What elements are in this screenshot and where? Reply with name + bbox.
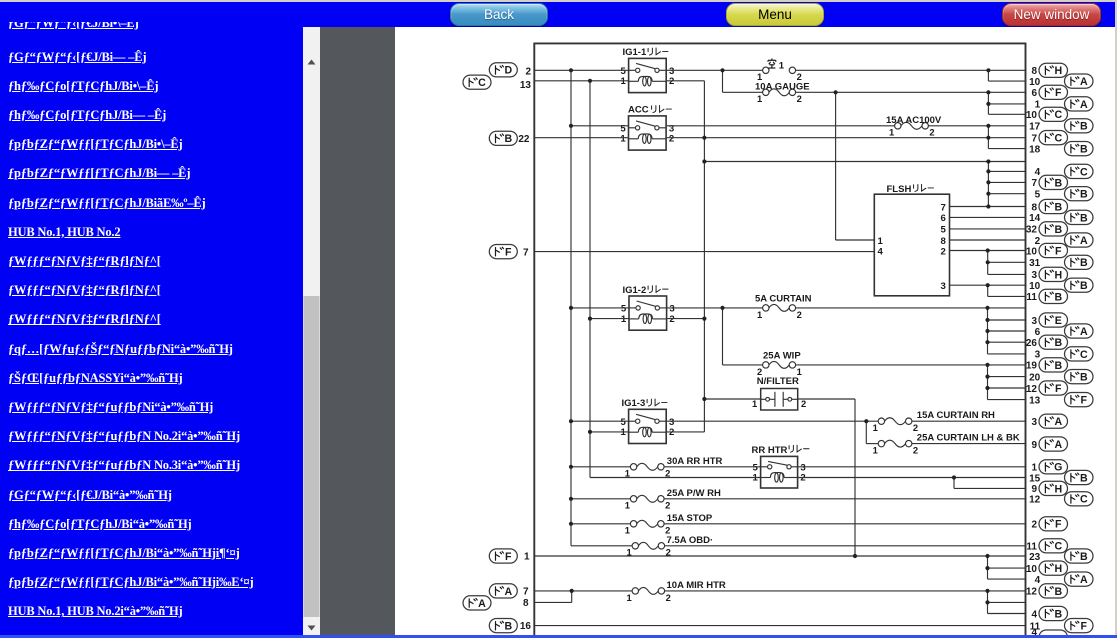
svg-text:RR HTR: RR HTR (752, 445, 788, 456)
svg-text:1: 1 (625, 525, 630, 536)
svg-text:4: 4 (1035, 575, 1041, 586)
svg-text:14: 14 (1029, 213, 1041, 224)
fuse 30A RR HTR (630, 463, 664, 470)
svg-text:2: 2 (913, 445, 918, 456)
svg-text:2: 2 (665, 500, 670, 511)
junctions (all solder dots) (569, 68, 991, 604)
wire IG1-1 pin3 to 空1 (666, 69, 762, 71)
svg-text:5A CURTAIN: 5A CURTAIN (755, 294, 812, 305)
wire FLSH pin5 to row 32 (950, 228, 1027, 230)
svg-text:2: 2 (669, 314, 674, 325)
wire mid bus row (704, 161, 1026, 163)
wire ドA8 riser (571, 591, 573, 603)
svg-text:18: 18 (1029, 144, 1041, 155)
wire IG1-2 pin1 row (590, 318, 629, 320)
svg-text:B: B (1054, 337, 1062, 349)
svg-text:6: 6 (1031, 88, 1037, 99)
fuse 5A CURTAIN (763, 304, 796, 311)
wire branch rows 10-3 (987, 251, 989, 275)
svg-text:B: B (504, 621, 512, 633)
svg-text:ACC: ACC (628, 105, 649, 116)
svg-text:13: 13 (1029, 395, 1041, 406)
wire 10A MIR HTR to row 12b (665, 590, 1027, 592)
connector ドC pin 13 (463, 75, 491, 89)
wire branch rows 8-10 (987, 70, 989, 81)
wire row 10d stub (988, 567, 1027, 569)
svg-text:B: B (1080, 144, 1088, 156)
wire row 9b stub (954, 487, 1027, 489)
svg-text:1: 1 (620, 76, 626, 87)
wire N/FILTER drop (854, 399, 856, 556)
wire FLSH pin1 riser (835, 92, 837, 240)
svg-text:F: F (1081, 621, 1088, 633)
wire ドF7 to FLSH pin4 (534, 251, 874, 253)
svg-text:1: 1 (620, 427, 626, 438)
svg-text:B: B (1080, 472, 1088, 484)
svg-text:6: 6 (940, 213, 945, 224)
wire row 31 stub (988, 261, 1027, 263)
wire 25A P/W RH to row 12 (664, 498, 1026, 500)
wire 30A RR HTR feed (571, 466, 630, 468)
relay label ACC riree (652, 106, 672, 113)
wire 30A RR HTR to RR relay pin5 (664, 466, 761, 468)
wire row 26 stub (988, 341, 1027, 343)
wire RR relay pin2 to row 15 (798, 477, 1027, 479)
svg-text:10A MIR HTR: 10A MIR HTR (667, 580, 726, 591)
svg-text:7: 7 (523, 247, 529, 258)
svg-text:2: 2 (757, 366, 762, 377)
svg-text:7: 7 (1031, 178, 1037, 189)
svg-text:32: 32 (1026, 225, 1038, 236)
wire bus V2 (coil feed) (589, 81, 591, 478)
svg-text:2: 2 (1031, 520, 1037, 531)
wire ドD2 / IG1-1 pin5 row (534, 69, 628, 71)
wire ドB16 to row 11b (534, 625, 1026, 627)
wire ACC pin2 to row 7 (667, 137, 1027, 139)
svg-text:12: 12 (1029, 495, 1041, 506)
svg-text:F: F (1055, 383, 1062, 395)
diagram frame (junction block outline) (534, 43, 1025, 638)
svg-text:B: B (1080, 551, 1088, 563)
svg-text:23: 23 (1029, 552, 1041, 563)
svg-text:F: F (1055, 87, 1062, 99)
wire branch rows 17-18 (987, 126, 989, 149)
wire row 4b stub (988, 578, 1027, 580)
wire 10A GAUGE feed (723, 91, 763, 93)
connector ドF pin 1 (489, 549, 517, 563)
relay label IG1-3 riree (647, 399, 667, 406)
svg-text:A: A (1080, 235, 1088, 247)
svg-text:C: C (1054, 133, 1062, 145)
svg-text:10: 10 (1026, 110, 1038, 121)
svg-text:8: 8 (1031, 66, 1037, 77)
svg-text:16: 16 (520, 621, 532, 632)
svg-text:2: 2 (525, 66, 531, 77)
svg-text:A: A (1080, 326, 1088, 338)
wire FLSH pin7 to row 8 (950, 206, 1027, 208)
wire row 3 stub (988, 273, 1027, 275)
wire 15A STOP to row 2 (664, 523, 1026, 525)
svg-text:2: 2 (669, 427, 674, 438)
svg-text:4: 4 (878, 247, 884, 258)
svg-text:IG1-1: IG1-1 (623, 47, 647, 58)
svg-text:2: 2 (797, 93, 802, 104)
wire IG1-3 pin3 to 15A CURTAIN RH (666, 420, 878, 422)
connector ドB pin 22 (489, 131, 517, 145)
wire row 11 stub (988, 295, 1027, 297)
svg-text:5: 5 (1035, 190, 1041, 201)
svg-text:26: 26 (1026, 338, 1038, 349)
svg-text:1: 1 (878, 236, 884, 247)
wire FLSH pin2 to row 10 (950, 250, 1027, 252)
fuse 25A P/W RH (630, 495, 664, 502)
svg-text:E: E (1055, 315, 1062, 327)
svg-text:15A AC100V: 15A AC100V (886, 115, 942, 126)
svg-text:12: 12 (1026, 384, 1038, 395)
svg-text:C: C (1054, 109, 1062, 121)
svg-text:6: 6 (1035, 327, 1041, 338)
svg-text:B: B (1080, 121, 1088, 133)
svg-text:4: 4 (1031, 609, 1037, 620)
wire row 3c stub (988, 353, 1027, 355)
svg-text:15A STOP: 15A STOP (667, 513, 713, 524)
wire IG1-2 pin2 out (667, 318, 705, 320)
fuse 15A AC100V (895, 122, 929, 129)
wire FLSH pin8 to row 2 (950, 239, 1027, 241)
svg-text:B: B (1054, 177, 1062, 189)
svg-text:1: 1 (757, 93, 762, 104)
svg-text:10A GAUGE: 10A GAUGE (755, 81, 810, 92)
svg-text:19: 19 (1026, 361, 1038, 372)
svg-text:A: A (1054, 416, 1062, 428)
wire RR relay pin1 row (590, 477, 761, 479)
svg-text:25A P/W RH: 25A P/W RH (667, 488, 721, 499)
svg-text:F: F (1055, 519, 1062, 531)
svg-text:3: 3 (1031, 417, 1037, 428)
connector ドA pin 8 (463, 596, 491, 610)
wire row 20 stub (988, 376, 1027, 378)
wire 25A WIP feed (723, 364, 763, 366)
svg-text:N/FILTER: N/FILTER (757, 376, 799, 387)
svg-text:F: F (505, 247, 512, 259)
svg-text:B: B (1080, 257, 1088, 269)
relay label IG1-1 riree (648, 48, 668, 55)
svg-text:25A WIP: 25A WIP (763, 351, 801, 362)
svg-text:C: C (1080, 494, 1088, 506)
wire row 12 stub (988, 387, 1027, 389)
svg-text:9: 9 (1031, 440, 1037, 451)
svg-text:8: 8 (523, 598, 529, 609)
svg-text:A: A (504, 586, 512, 598)
svg-text:IG1-2: IG1-2 (623, 285, 647, 296)
wire branch rows 19-13 (987, 365, 989, 400)
svg-text:9: 9 (1031, 484, 1037, 495)
connector ドA pin 7 (489, 584, 517, 598)
wire ドA7 / 10A MIR HTR feed (534, 590, 632, 592)
svg-text:IG1-3: IG1-3 (622, 398, 646, 409)
svg-text:8: 8 (1031, 202, 1037, 213)
svg-text:1: 1 (524, 552, 530, 563)
svg-text:20: 20 (1029, 372, 1041, 383)
svg-text:7: 7 (523, 587, 529, 598)
wire row 10b stub (988, 113, 1026, 115)
svg-text:B: B (504, 133, 512, 145)
fuse 7.5A OBD&#183; (632, 542, 665, 549)
fuse 25A WIP (763, 361, 796, 368)
wire IG1-2 pin5 row (571, 307, 629, 309)
svg-text:2: 2 (666, 592, 671, 603)
svg-text:H: H (1054, 563, 1062, 575)
svg-text:3: 3 (1031, 270, 1037, 281)
svg-text:10: 10 (1029, 281, 1041, 292)
svg-text:1: 1 (873, 422, 878, 433)
svg-text:FLSH: FLSH (887, 184, 912, 195)
svg-text:1: 1 (779, 60, 785, 71)
wire 15A CURTAIN RH to row 3 (912, 420, 1027, 422)
svg-text:1: 1 (1035, 100, 1041, 111)
wire IG1-2 pin3 to 5A CURTAIN (667, 307, 763, 309)
fuse 15A CURTAIN RH (878, 418, 912, 425)
connector ドD pin 2 (489, 63, 517, 77)
wire IG1-3 pin5 row (571, 420, 629, 422)
svg-text:7: 7 (940, 202, 945, 213)
svg-text:D: D (504, 65, 512, 77)
wire bus V1 (pin5 feed) (570, 70, 572, 546)
wire row 7b stub (988, 181, 1026, 183)
svg-text:7.5A OBD·: 7.5A OBD· (667, 535, 714, 546)
svg-text:1: 1 (873, 445, 878, 456)
wire RR pin2 drop (953, 478, 955, 489)
svg-text:10: 10 (1026, 564, 1038, 575)
wire 15A AC100V to row 17 (928, 125, 1026, 127)
wire 10A GAUGE to row 6 (796, 91, 1027, 93)
wire RR relay pin3 to row 1 (798, 466, 1027, 468)
wire 空1 to row 8 (796, 69, 1027, 71)
wire ドF1 to row 23 (534, 555, 1026, 557)
svg-text:H: H (1054, 483, 1062, 495)
relay RR HTR (761, 456, 798, 488)
svg-text:B: B (1054, 224, 1062, 236)
svg-text:1: 1 (889, 127, 894, 138)
wire IG1-3 pin2 out (666, 431, 704, 433)
svg-text:A: A (478, 598, 486, 610)
wire branch rows 10-11 (987, 285, 989, 296)
svg-text:H: H (1054, 65, 1062, 77)
svg-text:C: C (1080, 166, 1088, 178)
fuse 15A STOP (630, 520, 664, 527)
svg-text:1: 1 (626, 592, 631, 603)
svg-text:A: A (1080, 99, 1088, 111)
wire 25A P/W RH feed (571, 498, 630, 500)
svg-text:B: B (1054, 291, 1062, 303)
svg-text:1: 1 (625, 500, 630, 511)
wire IG1-3 pin1 row (590, 431, 629, 433)
svg-text:15A CURTAIN RH: 15A CURTAIN RH (917, 410, 995, 421)
wire FLSH pin3 to row 10c (950, 284, 1027, 286)
wire branch rows 6-10 (987, 92, 989, 114)
svg-text:B: B (1080, 372, 1088, 384)
wire row 1 stub (988, 103, 1026, 105)
svg-text:10: 10 (1029, 77, 1041, 88)
svg-text:1: 1 (1031, 463, 1037, 474)
svg-text:15: 15 (1029, 473, 1041, 484)
wire 15A STOP feed (571, 523, 630, 525)
svg-text:11: 11 (1026, 292, 1037, 303)
wire 25A CURTAIN LH to row 9 (912, 443, 1027, 445)
svg-text:5: 5 (940, 225, 946, 236)
wire branch rows 4-8 (987, 162, 989, 207)
wire ACC pin5 row (571, 125, 629, 127)
svg-text:30A RR HTR: 30A RR HTR (667, 456, 723, 467)
svg-text:1: 1 (620, 134, 626, 145)
svg-text:B: B (1080, 280, 1088, 292)
wire N/FILTER feed (704, 398, 760, 400)
wire 25A WIP to row 19 (796, 364, 1027, 366)
svg-text:10: 10 (1026, 246, 1038, 257)
svg-text:1: 1 (757, 309, 762, 320)
svg-text:3: 3 (940, 281, 945, 292)
noise filter N/FILTER (761, 389, 798, 411)
svg-text:2: 2 (940, 247, 945, 258)
wire bus V3 (pin2 chain) (703, 81, 705, 432)
scrollbar (303, 27, 320, 638)
svg-text:C: C (1080, 349, 1088, 361)
svg-text:31: 31 (1029, 258, 1041, 269)
svg-text:A: A (1054, 439, 1062, 451)
svg-text:H: H (1054, 269, 1062, 281)
wire 空1 branch (722, 70, 724, 92)
svg-text:12: 12 (1026, 587, 1038, 598)
wire FLSH pin1 in (836, 239, 875, 241)
wire branch rows 3-3 (987, 308, 989, 354)
svg-text:B: B (1054, 201, 1062, 213)
svg-text:2: 2 (669, 76, 674, 87)
svg-text:2: 2 (669, 134, 674, 145)
wire branch rows 12-4 (987, 591, 989, 614)
svg-text:B: B (1080, 212, 1088, 224)
svg-text:A: A (1080, 76, 1088, 88)
svg-text:8: 8 (940, 236, 946, 247)
wire row 3b stub (988, 319, 1027, 321)
svg-text:17: 17 (1029, 122, 1041, 133)
svg-text:A: A (1080, 574, 1088, 586)
svg-text:F: F (505, 551, 512, 563)
svg-text:B: B (1080, 189, 1088, 201)
connector ドB pin 16 (489, 619, 517, 633)
svg-text:C: C (478, 77, 486, 89)
svg-text:G: G (1054, 462, 1062, 474)
svg-text:1: 1 (621, 314, 627, 325)
wire 7.5A OBD to row 11 (665, 545, 1027, 547)
wire row 4 stub (988, 170, 1026, 172)
relay label IG1-2 riree (648, 286, 668, 293)
svg-text:13: 13 (520, 80, 532, 91)
wire 25A WIP branch (722, 308, 724, 365)
svg-text:1: 1 (752, 398, 757, 409)
svg-text:1: 1 (797, 366, 802, 377)
svg-text:2: 2 (801, 398, 806, 409)
svg-text:2: 2 (913, 422, 918, 433)
svg-text:B: B (1054, 586, 1062, 598)
wire row 10 stub (988, 80, 1026, 82)
wire CURTAIN LH drop (865, 421, 867, 443)
fuse 10A GAUGE (763, 89, 796, 96)
wire ACC pin3 to 15A AC100V (667, 125, 895, 127)
wire bottom partial stub (988, 636, 1027, 638)
svg-text:F: F (1081, 395, 1088, 407)
wire row 18 stub (988, 148, 1026, 150)
svg-text:2: 2 (929, 127, 934, 138)
wire branch rows 23-4 (987, 556, 989, 579)
svg-text:4: 4 (1035, 167, 1041, 178)
wire 7.5A OBD feed (571, 545, 632, 547)
svg-text:7: 7 (1031, 133, 1037, 144)
wire 5A CURTAIN out (796, 307, 1027, 309)
relay FLSH box (874, 194, 949, 296)
wire row 4c stub (988, 613, 1027, 615)
svg-text:B: B (1054, 608, 1062, 620)
svg-text:C: C (1054, 541, 1062, 553)
wire ドB22 / ACC pin1 row (534, 137, 628, 139)
wire N/FILTER out (798, 398, 855, 400)
svg-text:2: 2 (1035, 236, 1041, 247)
svg-text:3: 3 (1035, 350, 1041, 361)
svg-text:3: 3 (1031, 316, 1037, 327)
svg-text:22: 22 (518, 134, 530, 145)
fuse slot 空1 (empty) (763, 67, 796, 73)
wire IG1-1 pin2 out (666, 80, 704, 82)
svg-text:2: 2 (797, 309, 802, 320)
fuse 25A CURTAIN LH & BK (878, 440, 912, 447)
wire row 5 stub (988, 193, 1026, 195)
connector ドF pin 7 (489, 245, 517, 259)
wire ドA8 row (534, 601, 571, 603)
svg-text:B: B (1054, 360, 1062, 372)
wire 25A CURTAIN LH feed (866, 443, 878, 445)
wire row 13 stub (988, 399, 1027, 401)
wire unlabeled stub (988, 601, 1027, 603)
fuse 10A MIR HTR (632, 587, 665, 594)
wire FLSH pin6 to row 14 (950, 216, 1027, 218)
svg-text:25A CURTAIN LH & BK: 25A CURTAIN LH & BK (917, 433, 1020, 444)
wire row 6b stub (988, 330, 1027, 332)
svg-text:F: F (1055, 245, 1062, 257)
wire ドC13 / IG1-1 pin1 row (534, 80, 628, 82)
